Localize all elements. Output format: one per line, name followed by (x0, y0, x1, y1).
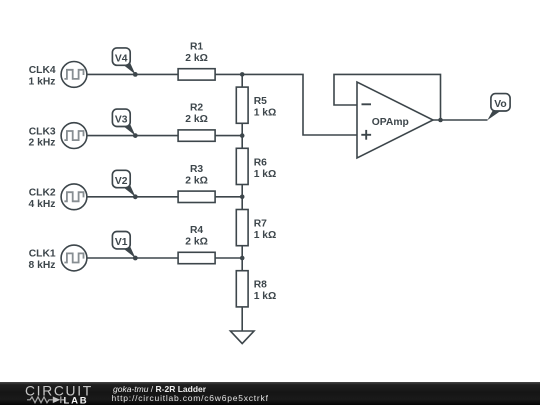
wire R1 to node A (215, 73, 242, 75)
svg-text:Vo: Vo (494, 99, 506, 110)
svg-text:R2: R2 (190, 103, 203, 114)
wire CLK3 to R2 (87, 135, 178, 137)
wire R4 to node D (215, 257, 242, 259)
label op-amp U1 name (372, 117, 409, 128)
svg-text:2 kΩ: 2 kΩ (185, 237, 208, 248)
svg-text:2 kΩ: 2 kΩ (185, 114, 208, 125)
svg-text:R4: R4 (190, 225, 203, 236)
svg-text:CLK4: CLK4 (29, 65, 56, 76)
node V3 flag (112, 109, 137, 138)
voltage source CLK3 (61, 123, 87, 149)
svg-text:R8: R8 (254, 280, 267, 291)
op-amp U1 body (357, 82, 433, 158)
label R2 value (185, 103, 208, 126)
svg-text:1 kΩ: 1 kΩ (254, 230, 277, 241)
svg-text:V2: V2 (115, 176, 128, 187)
label R6 value (254, 157, 277, 180)
svg-text:1 kΩ: 1 kΩ (254, 169, 277, 180)
wire feedback loop output to inverting input (334, 74, 441, 120)
svg-text:OPAmp: OPAmp (372, 117, 409, 128)
resistor R2 (178, 130, 215, 141)
resistor R3 (178, 191, 215, 202)
op-amp U1 non-inverting input pin marker (361, 130, 371, 140)
svg-text:http://circuitlab.com/c6w6pe5x: http://circuitlab.com/c6w6pe5xctrkf (112, 393, 269, 403)
wire node A to op-amp non-inverting input (242, 74, 357, 135)
resistor R8 (236, 271, 248, 307)
node V2 flag (112, 170, 137, 199)
label R7 value (254, 219, 277, 242)
svg-text:1 kHz: 1 kHz (29, 76, 56, 87)
svg-text:CLK1: CLK1 (29, 249, 56, 260)
node V4 flag (112, 48, 137, 77)
svg-text:CLK2: CLK2 (29, 188, 56, 199)
resistor R1 (178, 69, 215, 80)
junction node D (240, 256, 245, 261)
svg-text:V4: V4 (115, 54, 128, 65)
node V1 flag (112, 232, 137, 261)
svg-text:4 kHz: 4 kHz (29, 199, 56, 210)
junction node C (240, 195, 245, 200)
footer bar (decorative) (0, 382, 540, 405)
label R8 value (254, 280, 277, 303)
label CLK4 name/value (29, 65, 56, 87)
wire CLK2 to R3 (87, 196, 178, 198)
junction node A (240, 72, 245, 77)
wire R2 to node B (215, 135, 242, 137)
resistor R5 (236, 87, 248, 123)
wire R3 to node C (215, 196, 242, 198)
wire R8 to ground (241, 307, 243, 331)
label R4 value (185, 225, 208, 248)
svg-text:R1: R1 (190, 42, 203, 53)
node Vo flag (487, 94, 510, 121)
svg-text:R3: R3 (190, 164, 203, 175)
svg-text:2 kHz: 2 kHz (29, 138, 56, 149)
svg-text:R6: R6 (254, 157, 267, 168)
voltage source CLK1 (61, 245, 87, 271)
label R3 value (185, 164, 208, 187)
svg-text:LAB: LAB (64, 396, 89, 405)
wire node A to R5 (241, 74, 243, 87)
voltage source CLK4 (61, 62, 87, 88)
svg-text:1 kΩ: 1 kΩ (254, 291, 277, 302)
wire CLK1 to R4 (87, 257, 178, 259)
svg-text:1 kΩ: 1 kΩ (254, 108, 277, 119)
junction node B (240, 133, 245, 138)
ground (230, 331, 254, 344)
wire R7 to node D (241, 246, 243, 258)
svg-text:2 kΩ: 2 kΩ (185, 175, 208, 186)
svg-text:2 kΩ: 2 kΩ (185, 53, 208, 64)
label CLK2 name/value (29, 188, 56, 210)
svg-text:CLK3: CLK3 (29, 126, 56, 137)
wire op-amp output (433, 119, 488, 121)
resistor R4 (178, 252, 215, 263)
wire R6 to node C (241, 185, 243, 197)
resistor R6 (236, 148, 248, 184)
label CLK1 name/value (29, 249, 56, 271)
resistor R7 (236, 210, 248, 246)
svg-text:V1: V1 (115, 237, 128, 248)
wire R5 to node B (241, 123, 243, 135)
label R1 value (185, 42, 208, 65)
svg-text:R7: R7 (254, 219, 267, 230)
wire node C to R7 (241, 197, 243, 210)
svg-text:V3: V3 (115, 115, 128, 126)
label CLK3 name/value (29, 126, 56, 148)
junction output node (438, 118, 443, 123)
svg-text:8 kHz: 8 kHz (29, 260, 56, 271)
wire CLK4 to R1 (87, 73, 178, 75)
wire node D to R8 (241, 258, 243, 271)
label R5 value (254, 96, 277, 119)
voltage source CLK2 (61, 184, 87, 210)
op-amp U1 inverting input pin marker (362, 103, 372, 105)
wire node B to R6 (241, 136, 243, 149)
svg-text:R5: R5 (254, 96, 267, 107)
